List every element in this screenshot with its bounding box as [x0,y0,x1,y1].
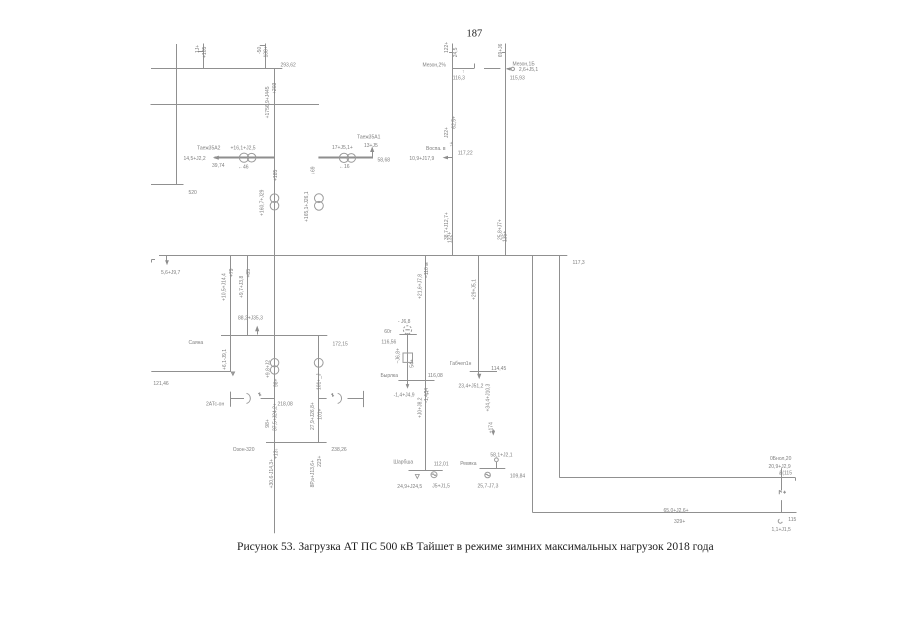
svg-text:=110 м: =110 м [424,262,430,278]
svg-text:Воспа. в: Воспа. в [426,146,446,152]
svg-text:2АТс-он: 2АТс-он [206,402,224,408]
svg-text:+10,5+J14,4: +10,5+J14,4 [222,273,228,301]
svg-text:101+_J: 101+_J [316,373,322,390]
svg-text:293,62: 293,62 [281,62,297,68]
svg-text:112,01: 112,01 [434,461,449,467]
svg-text:218,08: 218,08 [278,402,294,408]
svg-text:24,5: 24,5 [453,47,459,57]
svg-text:Габчеп1н: Габчеп1н [450,361,472,367]
svg-text:+6,1-J9,1: +6,1-J9,1 [222,349,228,370]
svg-text:115,93: 115,93 [510,75,525,81]
svg-text:+85: +85 [246,269,252,278]
svg-text:+9,8+J2: +9,8+J2 [266,360,272,378]
svg-text:17+J5,1+: 17+J5,1+ [332,145,353,151]
svg-text:117,3: 117,3 [573,260,585,266]
svg-text:- J6,8: - J6,8 [398,319,411,325]
svg-text:+34,4+J10,3: +34,4+J10,3 [486,383,492,411]
svg-text:14,5+J2,2: 14,5+J2,2 [184,156,206,162]
svg-text:13+J5: 13+J5 [364,143,378,149]
svg-text:27,9+J26,8+: 27,9+J26,8+ [310,402,316,430]
svg-text:10,9+J17,9: 10,9+J17,9 [409,156,434,162]
svg-text:Рисунок 53. Загрузка АТ ПС 500: Рисунок 53. Загрузка АТ ПС 500 кВ Тайшет… [237,540,714,553]
svg-text:+16,1+J2,5: +16,1+J2,5 [231,146,256,152]
svg-text:117,22: 117,22 [458,150,473,156]
svg-text:+165,1+J26,1: +165,1+J26,1 [304,191,310,222]
svg-text:132+: 132+ [448,232,454,243]
svg-text:+29+J5,1: +29+J5,1 [471,279,477,300]
svg-text:24,9+J24,5: 24,9+J24,5 [397,484,422,490]
svg-text:−J6,8+: −J6,8+ [396,348,402,363]
svg-text:+9,7+J3,8: +9,7+J3,8 [239,276,245,298]
svg-text:+30,6-J14,3+: +30,6-J14,3+ [269,459,275,489]
svg-text:65,0+J2,6+: 65,0+J2,6+ [664,508,689,514]
svg-text:J5+J1,5: J5+J1,5 [432,484,450,490]
svg-text:238,26: 238,26 [331,447,347,453]
svg-text:Саяна: Саяна [189,340,204,346]
svg-text:←16: ←16 [339,164,350,170]
svg-text:135+: 135+ [502,231,508,242]
svg-text:223+: 223+ [317,456,323,467]
svg-text:58,1+J2,1: 58,1+J2,1 [490,452,512,458]
svg-text:23,4+J51,2: 23,4+J51,2 [459,383,484,389]
svg-text:20,9+J2,9: 20,9+J2,9 [769,464,791,470]
svg-text:98+: 98+ [273,378,279,387]
svg-text:114,45: 114,45 [491,366,506,372]
svg-text:116,08: 116,08 [428,373,443,379]
svg-text:J22+: J22+ [444,127,450,138]
svg-text:Ревяка: Ревяка [460,461,477,467]
svg-text:-1,4Д4: -1,4Д4 [424,388,430,403]
svg-text:+J0+J8,2: +J0+J8,2 [417,397,423,418]
svg-text:54+: 54+ [409,359,415,368]
svg-text:39,74: 39,74 [212,163,225,169]
svg-text:69+J6: 69+J6 [498,43,504,57]
svg-text:98+: 98+ [265,419,271,428]
svg-text:2,6+J5,1: 2,6+J5,1 [519,67,539,73]
svg-text:172,15: 172,15 [333,342,349,348]
svg-text:37,5+J24,2+: 37,5+J24,2+ [272,403,278,431]
svg-text:138+: 138+ [264,46,270,57]
svg-text:+185: +185 [273,170,279,181]
svg-text:+105: +105 [202,47,208,58]
svg-text:1,1+J1,5: 1,1+J1,5 [772,527,792,533]
svg-text:88,2+J35,3: 88,2+J35,3 [238,316,263,322]
svg-text:+79: +79 [229,268,235,277]
svg-text:←46: ←46 [238,164,249,170]
svg-text:Шарбша: Шарбша [393,459,413,465]
svg-text:-50: -50 [257,47,263,54]
svg-text:60г: 60г [384,329,392,335]
svg-text:116,3: 116,3 [453,75,465,81]
svg-text:101+: 101+ [317,408,323,419]
svg-text:109,84: 109,84 [510,474,526,480]
svg-text:0Бнол,20: 0Бнол,20 [770,456,792,462]
svg-text:1J+: 1J+ [195,45,201,53]
svg-text:122+: 122+ [444,42,450,53]
svg-text:↑: ↑ [462,69,465,75]
svg-text:187: 187 [467,29,483,40]
svg-text:8Р,а+J13,6+: 8Р,а+J13,6+ [310,460,316,487]
svg-text:Мезон,2%: Мезон,2% [423,62,447,68]
svg-text:Бырлка: Бырлка [381,373,399,379]
svg-text:+203: +203 [272,83,278,94]
svg-text:121,46: 121,46 [153,381,169,387]
svg-text:↓69: ↓69 [311,166,317,174]
svg-text:↑+: ↑+ [449,142,455,148]
svg-text:116,56: 116,56 [381,339,396,345]
svg-text:25,7-J7,3: 25,7-J7,3 [478,484,499,490]
svg-text:+174: +174 [489,422,495,433]
svg-text:+1756,9+J445: +1756,9+J445 [265,86,271,118]
svg-text:&(115: &(115 [779,470,792,476]
svg-text:58,68: 58,68 [378,158,391,164]
svg-text:520: 520 [189,190,198,196]
svg-text:-1,4+J4,9: -1,4+J4,9 [394,392,415,398]
svg-text:329+: 329+ [674,519,685,525]
svg-text:5,6+J9,7: 5,6+J9,7 [161,270,181,276]
svg-text:Озон-320: Озон-320 [233,447,255,453]
svg-text:+21,6+J7,8: +21,6+J7,8 [418,274,424,299]
svg-text:Таеж35А1: Таеж35А1 [357,135,381,141]
svg-text:+160,7+J29: +160,7+J29 [260,189,266,216]
svg-text:Таеж35А2: Таеж35А2 [197,146,221,152]
svg-text:62,5+: 62,5+ [452,116,458,129]
svg-text:115: 115 [788,517,796,523]
svg-text:+13↓: +13↓ [274,448,280,459]
